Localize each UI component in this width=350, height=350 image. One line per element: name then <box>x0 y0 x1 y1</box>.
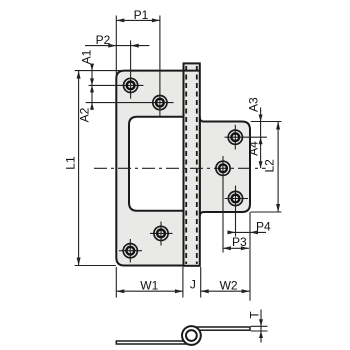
svg-text:L2: L2 <box>263 159 277 173</box>
svg-text:T: T <box>248 311 262 319</box>
svg-text:A4: A4 <box>247 141 261 156</box>
svg-text:A1: A1 <box>80 49 94 64</box>
svg-text:P1: P1 <box>134 8 149 22</box>
svg-text:W2: W2 <box>220 279 238 293</box>
svg-text:W1: W1 <box>140 279 158 293</box>
svg-text:A3: A3 <box>247 97 261 112</box>
svg-text:L1: L1 <box>63 156 77 170</box>
svg-text:P3: P3 <box>232 235 247 249</box>
svg-text:P4: P4 <box>256 220 271 234</box>
svg-text:J: J <box>190 278 196 292</box>
svg-text:A2: A2 <box>78 107 92 122</box>
svg-text:P2: P2 <box>96 33 111 47</box>
